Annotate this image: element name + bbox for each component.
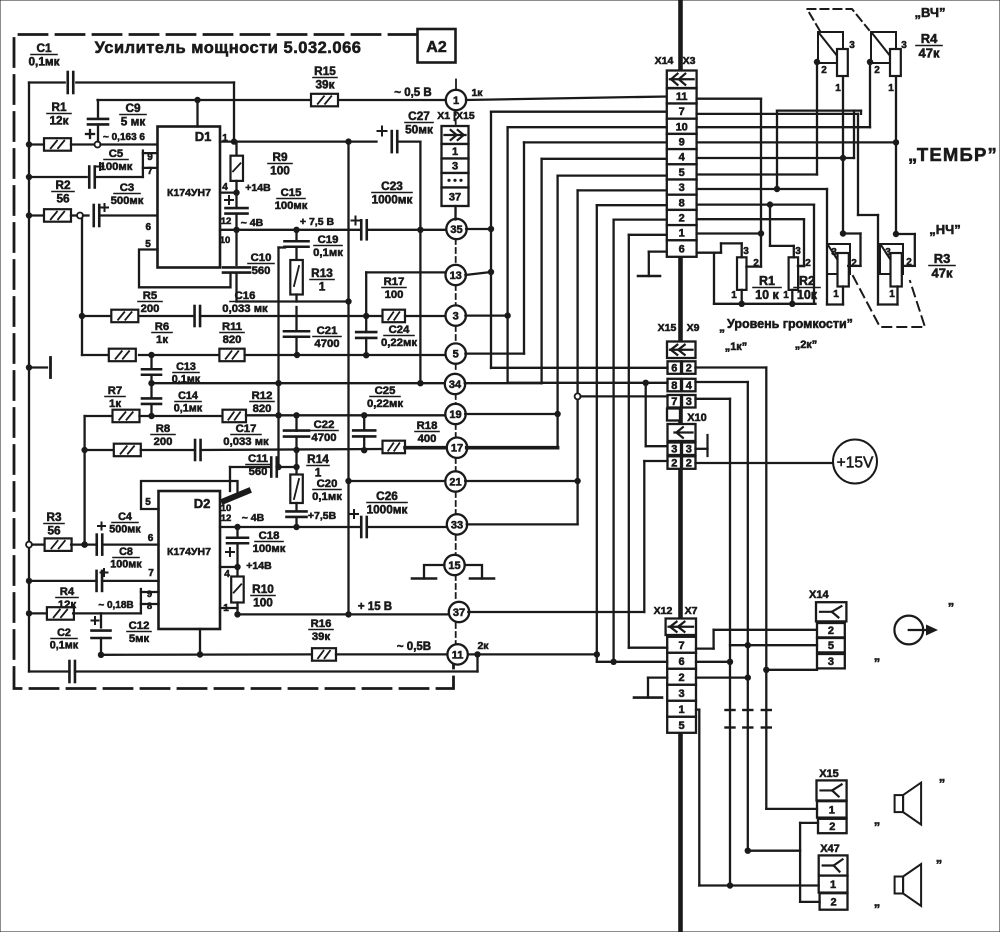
svg-text:100: 100 <box>385 289 404 301</box>
svg-text:7: 7 <box>679 640 685 652</box>
svg-text:С10: С10 <box>251 252 272 264</box>
svg-text:Усилитель мощности 5.032.066: Усилитель мощности 5.032.066 <box>95 39 362 57</box>
svg-text:34: 34 <box>449 379 462 391</box>
svg-text:+14В: +14В <box>245 182 271 194</box>
svg-text:С15: С15 <box>281 187 302 199</box>
svg-text:56: 56 <box>47 523 61 537</box>
svg-text:С24: С24 <box>389 324 410 336</box>
svg-text:5: 5 <box>679 720 685 732</box>
svg-text:0,1мк: 0,1мк <box>50 640 79 652</box>
svg-text:„ВЧ”: „ВЧ” <box>914 5 945 20</box>
svg-text:3: 3 <box>679 688 685 700</box>
svg-text:3: 3 <box>828 656 834 668</box>
svg-text:200: 200 <box>141 303 160 315</box>
svg-text:R13: R13 <box>311 266 333 280</box>
svg-text:820: 820 <box>253 403 272 415</box>
svg-text:3: 3 <box>671 444 677 456</box>
svg-text:6: 6 <box>148 533 154 544</box>
svg-text:8: 8 <box>679 197 685 209</box>
svg-text:560: 560 <box>252 265 271 277</box>
svg-text:R12: R12 <box>252 390 273 402</box>
svg-text:7: 7 <box>148 568 154 579</box>
svg-text:А2: А2 <box>426 39 447 56</box>
svg-text:5: 5 <box>828 640 834 652</box>
svg-text:6: 6 <box>671 363 677 375</box>
svg-text:0,1мк: 0,1мк <box>172 374 201 386</box>
svg-text:Х47: Х47 <box>820 843 840 855</box>
svg-text:1000мк: 1000мк <box>367 502 408 516</box>
svg-text:~ 0,18В: ~ 0,18В <box>98 600 133 611</box>
svg-text:11: 11 <box>676 91 688 103</box>
svg-text:„2к”: „2к” <box>795 339 818 351</box>
svg-text:R6: R6 <box>155 321 169 333</box>
svg-text:Х14: Х14 <box>809 589 829 601</box>
svg-text:3: 3 <box>679 182 685 194</box>
svg-text:4700: 4700 <box>311 432 336 444</box>
svg-text:R3: R3 <box>934 251 951 266</box>
svg-text:R18: R18 <box>417 420 438 432</box>
svg-text:С19: С19 <box>318 234 339 246</box>
svg-text:„: „ <box>874 648 881 663</box>
svg-text:”: ” <box>939 776 946 791</box>
svg-text:4: 4 <box>222 182 228 193</box>
svg-text:21: 21 <box>449 476 461 488</box>
svg-text:Х1 |Х15: Х1 |Х15 <box>437 110 475 122</box>
svg-text:33: 33 <box>451 519 463 531</box>
svg-text:10: 10 <box>676 121 688 133</box>
svg-text:1: 1 <box>319 279 326 293</box>
svg-text:1: 1 <box>833 289 839 300</box>
svg-text:R1: R1 <box>51 100 67 114</box>
svg-text:”: ” <box>936 857 943 872</box>
svg-text:3: 3 <box>743 246 749 257</box>
svg-text:R11: R11 <box>222 321 242 333</box>
svg-text:Х14: Х14 <box>655 55 674 67</box>
svg-text:3: 3 <box>901 40 907 51</box>
svg-text:7: 7 <box>679 106 685 118</box>
svg-text:Х3: Х3 <box>683 55 696 67</box>
svg-text:R16: R16 <box>311 618 332 630</box>
svg-text:3: 3 <box>849 40 855 51</box>
svg-text:С1: С1 <box>36 41 52 55</box>
svg-text:4700: 4700 <box>314 338 339 350</box>
svg-text:0,1мк: 0,1мк <box>28 54 59 68</box>
svg-text:С16: С16 <box>235 290 256 302</box>
svg-text:50мк: 50мк <box>405 122 433 136</box>
svg-text:0,22мк: 0,22мк <box>367 398 403 410</box>
svg-text:R2: R2 <box>55 178 71 192</box>
svg-text:1: 1 <box>783 290 789 301</box>
svg-text:1: 1 <box>679 228 685 240</box>
svg-text:5мк: 5мк <box>129 633 150 645</box>
svg-text:10: 10 <box>220 235 231 246</box>
svg-text:12к: 12к <box>58 599 77 611</box>
svg-text:8: 8 <box>147 601 152 612</box>
svg-text:3: 3 <box>795 246 801 257</box>
svg-text:„: „ <box>719 320 725 334</box>
svg-text:9: 9 <box>679 136 685 148</box>
svg-text:+7,5В: +7,5В <box>308 510 337 522</box>
svg-text:С17: С17 <box>236 423 257 435</box>
svg-text:С26: С26 <box>376 489 398 503</box>
svg-text:2к: 2к <box>477 640 489 652</box>
svg-text:„1к”: „1к” <box>725 341 748 353</box>
svg-text:1: 1 <box>835 83 841 94</box>
svg-text:С23: С23 <box>381 179 403 193</box>
svg-text:7: 7 <box>671 396 677 408</box>
svg-text:С2: С2 <box>57 627 71 639</box>
svg-text:6: 6 <box>679 244 685 256</box>
svg-text:1к: 1к <box>471 87 483 99</box>
svg-text:Х15: Х15 <box>658 322 677 334</box>
svg-text:15: 15 <box>448 560 460 572</box>
svg-text:„: „ <box>874 894 881 909</box>
svg-text:3: 3 <box>885 247 891 258</box>
svg-text:1: 1 <box>223 603 229 614</box>
svg-text:5: 5 <box>453 349 459 361</box>
svg-text:7: 7 <box>147 166 153 177</box>
svg-text:С11: С11 <box>248 453 268 465</box>
svg-text:35: 35 <box>450 224 462 236</box>
svg-text:560: 560 <box>249 466 268 478</box>
svg-text:Х10: Х10 <box>687 412 707 424</box>
svg-text:3: 3 <box>686 444 692 456</box>
svg-text:4: 4 <box>224 569 230 580</box>
svg-text:12к: 12к <box>49 113 68 127</box>
svg-text:~ 4В: ~ 4В <box>242 512 265 524</box>
svg-text:С3: С3 <box>120 182 134 194</box>
svg-text:3: 3 <box>831 247 837 258</box>
svg-text:R4: R4 <box>921 31 938 46</box>
svg-text:400: 400 <box>418 433 437 445</box>
svg-text:1: 1 <box>679 704 685 716</box>
svg-text:1: 1 <box>888 83 894 94</box>
svg-text:19: 19 <box>449 409 461 421</box>
svg-text:~ 0,5 В: ~ 0,5 В <box>394 87 431 99</box>
svg-text:+15V: +15V <box>837 455 874 472</box>
svg-text:Х9: Х9 <box>687 322 700 334</box>
svg-text:3: 3 <box>453 311 459 323</box>
svg-text:10 к: 10 к <box>755 288 779 302</box>
svg-text:Уровень громкости”: Уровень громкости” <box>727 317 853 331</box>
svg-text:„: „ <box>874 812 881 827</box>
svg-text:37: 37 <box>453 607 465 619</box>
svg-text:100мк: 100мк <box>110 559 142 571</box>
svg-text:С21: С21 <box>317 325 338 337</box>
svg-text:39к: 39к <box>315 77 334 91</box>
svg-text:R7: R7 <box>108 385 122 397</box>
svg-text:6: 6 <box>146 222 152 233</box>
svg-text:R4: R4 <box>60 586 75 598</box>
svg-text:~ 4В: ~ 4В <box>241 217 264 229</box>
svg-text:2: 2 <box>829 821 835 833</box>
svg-text:12: 12 <box>221 216 232 227</box>
svg-text:R15: R15 <box>314 64 336 78</box>
svg-text:С27: С27 <box>408 109 430 123</box>
svg-text:1000мк: 1000мк <box>372 192 413 206</box>
svg-text:+ 7,5 В: + 7,5 В <box>300 216 335 228</box>
svg-text:R9: R9 <box>272 150 288 164</box>
svg-text:~ 0,163 6: ~ 0,163 6 <box>103 132 145 143</box>
svg-text:2: 2 <box>828 625 834 637</box>
svg-text:5 мк: 5 мк <box>121 114 146 128</box>
svg-text:2: 2 <box>679 212 685 224</box>
svg-text:D1: D1 <box>195 129 212 144</box>
svg-text:500мк: 500мк <box>111 195 144 207</box>
svg-text:500мк: 500мк <box>109 524 141 536</box>
svg-text:D2: D2 <box>194 496 211 511</box>
svg-text:С14: С14 <box>178 390 198 402</box>
svg-text:R3: R3 <box>46 510 62 524</box>
svg-text:100: 100 <box>270 163 290 177</box>
svg-text:1: 1 <box>889 289 895 300</box>
svg-text:3: 3 <box>686 396 692 408</box>
svg-text:R5: R5 <box>143 290 157 302</box>
svg-text:820: 820 <box>223 334 242 346</box>
svg-text:100мк: 100мк <box>275 200 308 212</box>
svg-text:С8: С8 <box>119 546 133 558</box>
svg-text:С4: С4 <box>118 511 132 523</box>
svg-text:+ 15 В: + 15 В <box>358 601 392 613</box>
svg-text:0,033 мк: 0,033 мк <box>222 303 268 315</box>
svg-text:R2: R2 <box>799 274 815 288</box>
svg-text:2: 2 <box>686 458 692 470</box>
svg-text:С20: С20 <box>317 478 338 490</box>
svg-text:Х15: Х15 <box>819 768 839 780</box>
svg-text:100мк: 100мк <box>100 161 133 173</box>
svg-text:„ТЕМБР”: „ТЕМБР” <box>908 144 998 165</box>
svg-text:4: 4 <box>686 380 693 392</box>
svg-text:С22: С22 <box>314 419 335 431</box>
svg-text:С18: С18 <box>259 530 280 542</box>
svg-text:37: 37 <box>449 192 461 204</box>
svg-text:1: 1 <box>453 95 459 107</box>
svg-text:0,1мк: 0,1мк <box>174 403 203 415</box>
svg-text:R17: R17 <box>384 276 405 288</box>
svg-text:+14В: +14В <box>246 560 272 572</box>
svg-text:56: 56 <box>56 191 70 205</box>
svg-text:3: 3 <box>452 161 458 173</box>
svg-text:С5: С5 <box>109 148 123 160</box>
svg-text:0,22мк: 0,22мк <box>381 337 417 349</box>
svg-text:2: 2 <box>679 672 685 684</box>
svg-text:”: ” <box>948 600 955 615</box>
svg-text:Х12: Х12 <box>654 605 673 617</box>
svg-text:10к: 10к <box>797 288 818 302</box>
svg-text:R1: R1 <box>759 274 775 288</box>
svg-text:1к: 1к <box>109 398 121 410</box>
svg-text:R8: R8 <box>156 423 170 435</box>
svg-text:2: 2 <box>671 458 677 470</box>
svg-text:9: 9 <box>147 152 153 163</box>
svg-text:К174УН7: К174УН7 <box>167 546 211 558</box>
svg-text:0,033 мк: 0,033 мк <box>223 436 269 448</box>
svg-text:С9: С9 <box>125 101 141 115</box>
svg-text:С25: С25 <box>375 385 396 397</box>
svg-text:2: 2 <box>686 363 692 375</box>
svg-text:1к: 1к <box>156 334 168 346</box>
svg-text:С12: С12 <box>129 620 150 632</box>
svg-text:200: 200 <box>154 436 173 448</box>
svg-text:100мк: 100мк <box>253 543 286 555</box>
svg-text:1: 1 <box>829 804 835 816</box>
svg-text:6: 6 <box>679 656 685 668</box>
svg-text:17: 17 <box>451 443 463 455</box>
svg-text:0,1мк: 0,1мк <box>312 491 342 503</box>
svg-text:Х7: Х7 <box>685 605 698 617</box>
svg-text:2: 2 <box>874 65 880 76</box>
svg-text:0,1мк: 0,1мк <box>313 247 343 259</box>
svg-text:39к: 39к <box>312 631 331 643</box>
svg-text:12: 12 <box>221 513 232 524</box>
svg-text:1: 1 <box>452 146 458 158</box>
svg-text:„НЧ”: „НЧ” <box>929 222 961 237</box>
svg-text:~ 0,5В: ~ 0,5В <box>397 641 431 653</box>
svg-text:4: 4 <box>679 152 686 164</box>
svg-text:2: 2 <box>851 258 857 269</box>
svg-text:К174УН7: К174УН7 <box>167 187 211 199</box>
svg-text:8: 8 <box>671 380 677 392</box>
svg-text:11: 11 <box>452 649 464 661</box>
svg-text:13: 13 <box>450 270 462 282</box>
svg-text:1: 1 <box>731 290 737 301</box>
svg-text:47к: 47к <box>932 266 953 281</box>
svg-text:9: 9 <box>147 589 152 600</box>
svg-text:2: 2 <box>805 258 811 269</box>
svg-text:5: 5 <box>145 497 151 508</box>
svg-text:100: 100 <box>253 595 273 609</box>
svg-text:R10: R10 <box>252 582 274 596</box>
svg-text:5: 5 <box>679 167 685 179</box>
svg-text:47к: 47к <box>919 46 940 61</box>
svg-text:R14: R14 <box>307 452 329 466</box>
svg-text:С13: С13 <box>176 361 196 373</box>
svg-text:2: 2 <box>821 65 827 76</box>
svg-text:2: 2 <box>830 896 836 908</box>
svg-text:1: 1 <box>830 879 836 891</box>
